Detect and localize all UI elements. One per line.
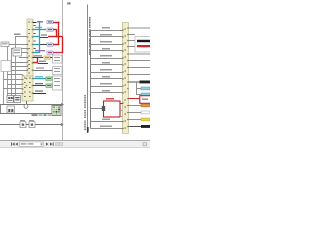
wire labels J2 left (100, 27, 112, 127)
component box K3 (1, 61, 11, 72)
component box U2 (53, 55, 63, 63)
wire y40.5 (129, 40, 138, 41)
wire y28 (129, 28, 151, 29)
component box U3 (53, 67, 63, 75)
left feeder wires J2 (91, 30, 123, 129)
toolbar prev button (15, 142, 17, 145)
bus wire y124.5 (0, 123, 64, 126)
wire y67.5 (129, 67, 151, 68)
wire red row y44.5 (53, 44, 60, 45)
label above K2 (14, 34, 21, 35)
connector box C1 (7, 96, 13, 103)
wire vertical feed x15 (15, 37, 16, 96)
wire row y79.5 left (3, 79, 22, 80)
wire row y37 left (15, 36, 27, 37)
fuse box F1 (7, 106, 15, 113)
component box K1 (1, 42, 9, 47)
pin labels on strip J2 (124, 29, 126, 129)
inline component P1 (20, 120, 26, 128)
wire red row y22 (53, 22, 60, 23)
vertical caption top (89, 17, 91, 55)
page divider (62, 0, 63, 140)
page background (0, 0, 150, 150)
wire teal vertical (39, 22, 40, 53)
toolbar first-page button (11, 142, 15, 145)
wire red row y37 (48, 36, 63, 37)
row y78.5: teal + green label (33, 76, 52, 80)
wire red row y29.5 (53, 29, 57, 30)
component box R2 red (140, 96, 151, 104)
connector strip J1 upper (27, 19, 33, 76)
pin labels on strip J1 (24, 22, 31, 98)
wire row y66 left (7, 66, 27, 67)
wire vertical feed x11 (11, 49, 12, 96)
row y52.5: teal + purple + magenta (33, 50, 53, 54)
wire red loop inner vertical (56, 29, 57, 38)
wire red loop outer vertical (58, 22, 59, 46)
connector box C2 (14, 96, 21, 103)
pin number dashes right of strip J1 (34, 25, 36, 57)
bus label with green code (32, 114, 52, 115)
bus vertical right page (90, 30, 91, 129)
wire y60.5 (129, 60, 151, 61)
vertical caption bottom (84, 95, 86, 130)
component box U4 (53, 76, 63, 90)
wire row y53 left (19, 52, 27, 53)
wire row y49 left (11, 48, 27, 49)
row y70 wire (33, 67, 53, 71)
vertical branch x136 (136, 82, 137, 95)
wire y94.5 cyan label (137, 93, 151, 96)
pin dots J1 upper (27, 21, 33, 71)
row y57.5: label + yellow box (33, 55, 53, 59)
wire red jog y57-63 (33, 58, 38, 64)
connector strip J2 (122, 23, 128, 134)
bus wire y113.5 (0, 113, 52, 114)
wire gray from R1 to J2 (120, 110, 123, 117)
splice S1 (24, 101, 28, 108)
border bottom tick (87, 127, 89, 133)
wire y74.5 (129, 74, 151, 75)
toolbar right icon (143, 143, 147, 146)
wire red to R2 (129, 98, 141, 99)
toolbar page combo (20, 142, 44, 146)
wire row y57.5 left (19, 57, 27, 58)
wire row y84 left (7, 84, 22, 85)
wire y105.5 orange label (129, 104, 151, 107)
wire y126.5 black label (129, 125, 151, 128)
wire row y62 left (11, 62, 27, 63)
wire red from R1 to J2 (120, 103, 123, 104)
component box M1 (135, 37, 151, 53)
inline component P2 (29, 120, 35, 128)
wire row y70 left (3, 70, 27, 71)
row y37: teal + black + red (33, 34, 48, 38)
wire y34.5 (129, 34, 136, 35)
wire magenta row y52.5 (53, 52, 63, 53)
wire y88.5 cyan label (137, 87, 151, 90)
wire red loop right vertical (62, 37, 63, 54)
toolbar background (0, 140, 150, 148)
wire y46.5 (129, 46, 138, 47)
connector grid G1 (52, 106, 61, 116)
row y93 wire black (33, 90, 46, 94)
wire y82 + black label (129, 81, 151, 84)
right page border (87, 5, 88, 134)
pin dots J1 lower (22, 74, 33, 94)
wire row y89 left (3, 88, 22, 89)
row y85.5: blue wire + green label (33, 83, 52, 87)
row y29.5: teal wire (33, 27, 53, 31)
row y44.5: teal + box + red (33, 43, 53, 46)
toolbar last-page button (50, 142, 54, 145)
wire vertical feed x3 (3, 60, 4, 105)
row y22: label + wire + red (33, 20, 53, 23)
component box K2 (13, 48, 22, 56)
wire row y93.5 left (7, 93, 22, 94)
wire row y104.5 (0, 103, 64, 106)
wire row y75 left (7, 74, 22, 75)
component box R1 red highlight (102, 98, 120, 117)
pin dots J2 right (127, 27, 129, 127)
wire y54 (129, 54, 151, 55)
wire row y44.5 left (7, 44, 27, 45)
toolbar extra icons (56, 142, 63, 145)
connector strip J1 lower (22, 76, 33, 101)
toolbar next button (46, 142, 48, 145)
wire vertical feed x7 (7, 45, 8, 97)
wire left edge vertical (0, 105, 1, 114)
wire y119.5 yellow label (129, 118, 151, 121)
page number 75 (67, 2, 70, 4)
wire y112.5 white label (129, 111, 151, 114)
row y63 wire black (38, 61, 48, 64)
pin dots J2 left (122, 29, 124, 129)
